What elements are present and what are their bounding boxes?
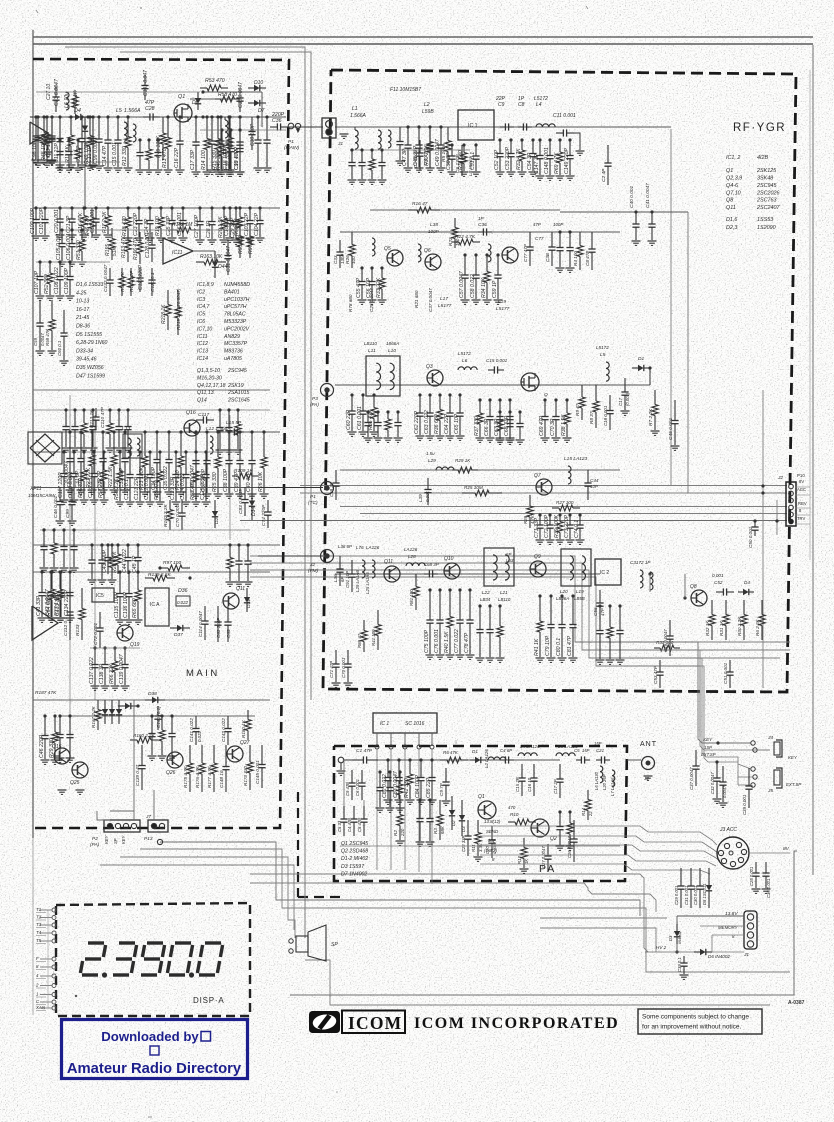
resistor R44: [228, 115, 231, 118]
svg-text:R28: R28: [523, 515, 528, 524]
svg-text:C148 0.001: C148 0.001: [544, 147, 550, 174]
svg-text:78L05AC: 78L05AC: [224, 312, 246, 318]
svg-text:R156 470: R156 470: [133, 238, 139, 260]
svg-text:C28 1P: C28 1P: [206, 220, 212, 238]
PA section dashed border: [334, 746, 627, 881]
svg-text:R13 470: R13 470: [162, 148, 168, 168]
resistor R14 22: [587, 790, 589, 800]
svg-text:1SS53: 1SS53: [757, 217, 773, 223]
capacitor C98: [36, 115, 39, 118]
capacitor C117: [62, 450, 65, 453]
wire: [240, 520, 787, 522]
svg-text:C63 0.022: C63 0.022: [424, 410, 430, 434]
svg-text:C28 0.001: C28 0.001: [749, 867, 754, 886]
resistor R53: [82, 408, 85, 411]
small square after Downloaded by: [201, 1032, 211, 1042]
svg-text:1.5u: 1.5u: [426, 451, 435, 456]
capacitor C21 15P: [596, 759, 601, 761]
capacitor C50: [450, 143, 453, 146]
capacitor C60: [350, 393, 353, 396]
resistor R35: [372, 393, 375, 396]
wire: [560, 211, 688, 213]
svg-text:L19: L19: [498, 299, 506, 305]
capacitor C87: [50, 115, 53, 118]
svg-text:PA: PA: [539, 863, 556, 875]
svg-text:C38 100P: C38 100P: [223, 468, 229, 492]
svg-text:Q7,10: Q7,10: [726, 191, 741, 197]
svg-text:C54 3P: C54 3P: [527, 152, 533, 170]
wire: [133, 700, 135, 820]
jack J4: [751, 741, 755, 745]
capacitor C17 0.001: [624, 378, 626, 392]
capacitor C37: [205, 430, 208, 433]
svg-text:1P: 1P: [478, 216, 485, 221]
svg-text:R10: R10: [510, 812, 519, 817]
capacitor C117: [196, 419, 203, 421]
svg-text:0.001: 0.001: [425, 490, 430, 502]
svg-text:P3: P3: [312, 396, 318, 402]
wire: [33, 544, 280, 546]
connector J7: [148, 820, 168, 832]
svg-text:R38 1.5K: R38 1.5K: [561, 414, 567, 436]
connector P1 (MAIN)/J1: [288, 123, 294, 129]
diode D38: [145, 699, 152, 701]
svg-text:4I2B: 4I2B: [757, 155, 768, 161]
wire: [378, 759, 560, 761]
wire: [480, 864, 710, 874]
resistor R28: [116, 543, 119, 546]
transistor Q3: [427, 370, 443, 386]
capacitor C54: [531, 138, 534, 141]
capacitor C75: [428, 588, 431, 591]
svg-text:C28: C28: [145, 106, 155, 112]
svg-text:C59: C59: [33, 337, 38, 346]
svg-text:1866A: 1866A: [386, 341, 399, 346]
capacitor C15/C16: [521, 764, 523, 778]
svg-text:C134 220P: C134 220P: [64, 590, 70, 616]
wire: [36, 261, 110, 263]
resistor R163 10K: [196, 261, 204, 263]
wire: [33, 699, 270, 701]
svg-text:IC 2: IC 2: [600, 570, 609, 576]
resistor R26 100: [351, 232, 353, 245]
svg-text:D1-2 MI402: D1-2 MI402: [341, 856, 368, 862]
svg-text:C17 2P: C17 2P: [553, 779, 558, 794]
svg-text:C117 220P: C117 220P: [58, 472, 64, 498]
antenna jack J2: [642, 757, 655, 770]
svg-text:C50 0.001: C50 0.001: [748, 526, 753, 548]
svg-text:L4: L4: [536, 102, 542, 108]
resistor R155 51K: [111, 228, 113, 239]
capacitor C46: [43, 714, 46, 717]
pin circles IC1: [375, 745, 379, 749]
svg-text:2SA1015: 2SA1015: [227, 390, 249, 396]
IC2 box: [595, 559, 621, 585]
svg-text:C99 0.0047: C99 0.0047: [93, 136, 99, 164]
diode D25: [84, 117, 86, 126]
svg-text:T3: T3: [36, 922, 42, 927]
resistor R31: [462, 143, 465, 146]
capacitor C36: [194, 430, 197, 433]
capacitor C17: [194, 115, 197, 118]
wire: [335, 384, 650, 386]
svg-text:C3172 1P: C3172 1P: [630, 560, 651, 565]
resistor R55 100: [239, 225, 241, 236]
svg-text:Some components subject to cha: Some components subject to change: [642, 1014, 749, 1021]
svg-text:R41 1K: R41 1K: [534, 638, 540, 656]
svg-text:R175 4.7K: R175 4.7K: [183, 765, 188, 788]
inductor L28 LA126: [406, 563, 425, 566]
transistor Q19: [117, 625, 133, 641]
svg-text:J1: J1: [337, 141, 343, 147]
svg-text:Q11,13: Q11,13: [197, 390, 214, 396]
wire: [480, 826, 717, 845]
wire: [33, 431, 280, 433]
resistor R74: [398, 770, 401, 773]
wire: [627, 759, 641, 761]
svg-text:R23: R23: [448, 237, 453, 246]
capacitor C132: [246, 543, 249, 546]
capacitor C74 220P: [267, 500, 269, 512]
svg-text:C102 3P: C102 3P: [224, 215, 230, 236]
svg-text:C39 0.1: C39 0.1: [677, 957, 682, 972]
capacitor C149: [568, 138, 571, 141]
capacitor C101: [43, 206, 46, 209]
wire: [677, 915, 744, 917]
svg-text:P13: P13: [144, 836, 153, 842]
svg-text:68K: 68K: [440, 825, 445, 834]
capacitor C11: [58, 115, 61, 118]
capacitor C47: [406, 125, 409, 128]
connector J3 ACC: [717, 837, 749, 869]
transistor Q4 FET: [521, 373, 539, 391]
resistor R33 100: [654, 647, 660, 649]
resistor R63: [228, 543, 231, 546]
junction: [201, 90, 204, 93]
capacitor C5 15P: [576, 759, 581, 761]
svg-text:R4 100: R4 100: [573, 251, 578, 266]
svg-text:IC 1: IC 1: [380, 721, 389, 727]
svg-text:C125 220P: C125 220P: [200, 474, 206, 500]
svg-text:D47 1S1599: D47 1S1599: [76, 373, 105, 379]
svg-text:MAIN: MAIN: [186, 668, 220, 679]
wire: [229, 415, 231, 540]
inductor L6 L5172: [458, 367, 477, 370]
resistor R67: [160, 714, 163, 717]
capacitor C23 0.0047: [55, 86, 57, 97]
resistor R15: [216, 115, 219, 118]
resistor R16 47: [408, 209, 417, 211]
svg-text:L6 LA130: L6 LA130: [594, 771, 599, 790]
resistor R219 1K: [177, 290, 179, 307]
capacitor C158: [488, 604, 491, 607]
resistor R27 100: [552, 507, 559, 509]
svg-text:R60 470: R60 470: [190, 480, 196, 500]
svg-text:R45 1K: R45 1K: [73, 90, 79, 108]
capacitor C58: [474, 253, 477, 256]
svg-text:R25 10M: R25 10M: [464, 485, 483, 490]
capacitor C135: [118, 570, 121, 573]
capacitor C23: [137, 206, 140, 209]
svg-text:C140 (0.1): C140 (0.1): [156, 706, 161, 728]
svg-text:R51 330: R51 330: [76, 240, 82, 260]
capacitor C162: [388, 770, 391, 773]
svg-text:C22 33P: C22 33P: [461, 835, 466, 852]
transistor Q26: [167, 752, 183, 768]
wire: [36, 161, 120, 163]
svg-text:C8: C8: [518, 102, 525, 108]
svg-text:IC A: IC A: [150, 602, 160, 608]
wire: [97, 811, 110, 820]
svg-text:L5: L5: [116, 108, 122, 114]
svg-text:C103 22P: C103 22P: [244, 212, 250, 236]
svg-text:T4: T4: [36, 930, 42, 935]
svg-text:C35 0.022: C35 0.022: [163, 466, 169, 490]
resistor R25 10M: [462, 492, 475, 494]
capacitor C148 10: [225, 745, 227, 767]
wire: [749, 852, 790, 854]
capacitor C33: [123, 430, 126, 433]
7-segment display reading 2.390.0: [88, 941, 104, 944]
svg-text:C85 22P: C85 22P: [426, 777, 432, 798]
diode D4: [68, 116, 75, 118]
wire: [140, 849, 790, 972]
svg-text:C79 10P: C79 10P: [545, 635, 551, 656]
svg-text:C92 33P: C92 33P: [225, 149, 231, 170]
capacitor C44 10P: [587, 470, 589, 483]
capacitor C34: [155, 430, 158, 433]
op-amp IC7: [32, 606, 58, 640]
capacitor C93: [238, 128, 241, 131]
capacitor C99: [97, 115, 100, 118]
inductor L4 L5172: [536, 124, 555, 127]
capacitor C153: [376, 410, 379, 413]
capacitor C91 10P: [351, 560, 353, 574]
resistor R11: [69, 115, 72, 118]
svg-text:38P: 38P: [488, 838, 496, 843]
capacitor C139 0.47: [141, 745, 143, 766]
wire: [370, 209, 560, 211]
svg-text:C17: C17: [618, 397, 623, 406]
svg-text:C20 0.001: C20 0.001: [54, 209, 60, 233]
svg-text:(FM): (FM): [308, 568, 319, 574]
svg-text:LA126: LA126: [366, 545, 380, 550]
svg-text:47K: 47K: [450, 750, 459, 755]
wire: [360, 513, 787, 515]
resistor R61: [52, 528, 55, 531]
svg-text:L1: L1: [352, 106, 358, 112]
svg-text:C9 47P: C9 47P: [345, 782, 350, 796]
svg-text:C60 0.1: C60 0.1: [57, 340, 62, 356]
svg-text:0.022: 0.022: [177, 600, 189, 605]
capacitor C31 0.0047: [227, 240, 229, 256]
wire: [69, 395, 71, 760]
capacitor C35 0.0047: [239, 88, 241, 98]
capacitor C64: [448, 393, 451, 396]
capacitor C129: [90, 543, 93, 546]
svg-text:C35 0.0047: C35 0.0047: [238, 82, 244, 108]
svg-text:J2: J2: [777, 475, 783, 481]
svg-text:C68 33P: C68 33P: [504, 415, 510, 436]
capacitor C39 0.1: [683, 956, 685, 963]
diode D37: [170, 627, 177, 629]
resistor R31 1K: [725, 600, 727, 615]
resistor R30 2.2K: [743, 600, 745, 615]
wire: [762, 390, 764, 688]
capacitor bank left: [343, 806, 345, 819]
notice box: [638, 1009, 762, 1034]
svg-text:C105 0.001: C105 0.001: [56, 233, 62, 260]
resistor R218 1K: [167, 290, 169, 305]
svg-text:C59 1P: C59 1P: [492, 280, 498, 298]
svg-text:C14 47P: C14 47P: [102, 145, 108, 166]
svg-text:SP: SP: [113, 838, 118, 844]
capacitor C163: [418, 798, 421, 801]
svg-text:R163 10K: R163 10K: [200, 254, 223, 260]
capacitor C77 47P: [529, 232, 531, 247]
capacitor C73: [568, 513, 571, 516]
svg-text:R9 47: R9 47: [575, 403, 580, 416]
capacitor C81: [571, 594, 574, 597]
capacitor C21: [70, 206, 73, 209]
svg-text:IC11: IC11: [197, 334, 208, 340]
capacitor C127 220P: [139, 268, 141, 278]
capacitor C116: [227, 408, 230, 411]
svg-text:DISP·A: DISP·A: [193, 996, 224, 1005]
svg-text:Q11: Q11: [384, 559, 393, 565]
svg-text:C100 100P: C100 100P: [30, 208, 36, 234]
capacitor C145: [360, 148, 363, 151]
svg-text:C109 100P: C109 100P: [64, 268, 70, 294]
svg-text:100P: 100P: [553, 222, 563, 227]
svg-text:C120 0.1: C120 0.1: [124, 479, 130, 500]
capacitor C45: [136, 543, 139, 546]
wire: [60, 229, 260, 231]
svg-text:10P: 10P: [590, 484, 598, 489]
svg-text:2SC2026: 2SC2026: [756, 191, 779, 197]
svg-text:C136 100P: C136 100P: [123, 592, 129, 618]
svg-text:R37 330: R37 330: [474, 416, 480, 436]
resistor R60: [194, 450, 197, 453]
wire: [120, 857, 295, 938]
capacitor C110: [64, 408, 67, 411]
svg-text:L11: L11: [368, 348, 376, 354]
resistor R23: [143, 430, 146, 433]
svg-text:C36: C36: [272, 118, 282, 124]
svg-text:uPC577H: uPC577H: [224, 304, 247, 310]
svg-text:R58 2.2K: R58 2.2K: [114, 478, 120, 500]
diode D1: [632, 367, 638, 369]
svg-text:Q2,3,9: Q2,3,9: [726, 176, 742, 182]
capacitor C56: [370, 266, 373, 269]
svg-text:IN4002: IN4002: [677, 930, 682, 944]
wire: [300, 485, 787, 487]
capacitor C143: [170, 714, 173, 717]
svg-text:C70 0.001: C70 0.001: [341, 657, 346, 678]
capacitor C113 1K: [95, 408, 97, 417]
wire: [250, 577, 700, 737]
svg-text:C8 47P: C8 47P: [585, 250, 590, 266]
svg-text:R56 470: R56 470: [78, 478, 84, 498]
svg-text:uPC2002V: uPC2002V: [224, 326, 250, 332]
capacitor C80: [560, 594, 563, 597]
svg-text:R139 2.2K: R139 2.2K: [148, 572, 171, 578]
diode D6 IN4002: [694, 951, 700, 953]
svg-text:Q8: Q8: [726, 198, 733, 204]
resistor R81 100: [415, 574, 417, 587]
svg-text:R26 10K: R26 10K: [258, 471, 264, 492]
resistor R75: [568, 810, 571, 813]
op-amp IC11: [163, 238, 193, 264]
capacitor C41: [40, 570, 43, 573]
resistor R24: [179, 430, 182, 433]
svg-text:Q26: Q26: [166, 770, 176, 776]
svg-text:D7 1N4002: D7 1N4002: [341, 871, 367, 877]
svg-text:C118 0.001: C118 0.001: [68, 471, 74, 498]
svg-text:XAN: XAN: [35, 1005, 46, 1010]
resistor R41 100: [377, 610, 379, 625]
svg-text:C46 220P: C46 220P: [39, 734, 45, 758]
display dot: [75, 995, 77, 997]
resistor R21: [90, 430, 93, 433]
svg-text:C64 22P: C64 22P: [444, 413, 450, 434]
svg-text:A-0387: A-0387: [788, 1000, 805, 1006]
transistor Q27: [227, 746, 243, 762]
svg-text:IC1,8,9: IC1,8,9: [197, 282, 214, 288]
capacitor C18 0.001: [609, 395, 611, 411]
svg-text:C121 22P: C121 22P: [134, 476, 140, 500]
inductor L5 LA126: [556, 753, 575, 756]
capacitor C121: [138, 450, 141, 453]
resistor R23 100: [454, 218, 456, 228]
svg-text:C6 0.001: C6 0.001: [355, 779, 360, 796]
resistor R54 4.7K: [121, 268, 123, 277]
svg-text:R34 10K: R34 10K: [481, 277, 487, 298]
inductor L12 1.5uuA: [210, 436, 213, 454]
svg-text:C135 100P: C135 100P: [114, 592, 120, 618]
transistor Q9: [530, 561, 546, 577]
resistor R173 330: [249, 745, 251, 762]
svg-text:R57 22K: R57 22K: [98, 477, 104, 498]
svg-text:15P: 15P: [594, 741, 602, 746]
resistor R6 2.2K: [761, 600, 763, 615]
svg-text:Q11: Q11: [236, 586, 245, 592]
svg-text:L25 LA1A6: L25 LA1A6: [365, 572, 370, 594]
svg-text:C45 0.001: C45 0.001: [668, 418, 674, 440]
diode D2pa: [451, 796, 453, 810]
svg-text:C65 10P: C65 10P: [454, 413, 460, 434]
IF transformer L22/L21: [484, 548, 514, 586]
wire: [40, 529, 250, 531]
svg-text:C62 220P: C62 220P: [414, 410, 420, 434]
capacitor C114: [126, 408, 129, 411]
capacitor C31: [79, 430, 82, 433]
inductor L38 100P: [372, 238, 375, 256]
capacitor C12: [80, 115, 83, 118]
svg-text:D1,6 1S533: D1,6 1S533: [76, 282, 104, 288]
capacitor C104: [258, 206, 261, 209]
capacitor C139: [123, 646, 126, 649]
svg-text:L5172: L5172: [596, 345, 609, 350]
wire: [340, 506, 787, 508]
svg-text:C11 0.001: C11 0.001: [553, 113, 576, 119]
svg-text:IC13: IC13: [197, 349, 208, 355]
capacitor C157: [478, 604, 481, 607]
capacitor C28: [210, 206, 213, 209]
capacitor C36 220P: [270, 126, 277, 128]
svg-text:D3 1S597: D3 1S597: [341, 864, 365, 870]
svg-text:Q9: Q9: [534, 554, 541, 560]
